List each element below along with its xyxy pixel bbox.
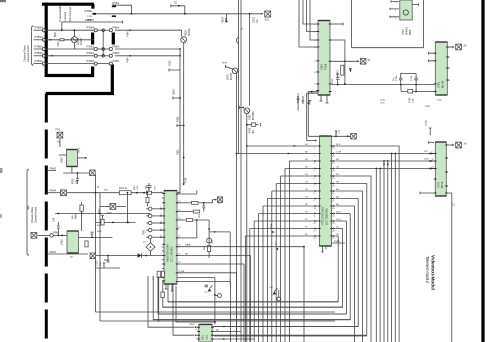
branch drops on pin3 wire xyxy=(387,160,389,162)
svg-text:P08/1: P08/1 xyxy=(113,59,120,63)
wire x158.7 y322 over IC8 xyxy=(158,276,160,322)
wire y84.6 long to IC2 xyxy=(332,84,434,86)
junction dot x180 y55.8 xyxy=(179,55,181,57)
svg-text:6: 6 xyxy=(314,72,315,74)
svg-text:5: 5 xyxy=(396,2,397,4)
arrow into V783 base xyxy=(242,107,244,109)
IC4 right pin arrow 5 xyxy=(333,175,335,177)
bus line y326.5 right part xyxy=(213,326,358,328)
stub resistor on x180 y98 xyxy=(173,97,180,100)
connector pin P786/1 circle xyxy=(42,62,45,65)
IC4 right pin wire 9 corner x354.4 xyxy=(336,206,355,342)
junction dot row1 x61.8 xyxy=(61,29,63,31)
svg-text:7: 7 xyxy=(314,84,315,86)
svg-text:TDA8: TDA8 xyxy=(325,63,328,70)
svg-text:R782: R782 xyxy=(249,127,252,133)
junction dot x180 y49 xyxy=(179,48,181,50)
wire after R313 xyxy=(193,219,209,221)
svg-text:C681: C681 xyxy=(177,149,180,155)
stub down x108 y255 xyxy=(107,256,110,263)
vertical x95.5 corner to bus xyxy=(96,311,336,313)
wire row P786/5 xyxy=(46,29,94,31)
wire between mating circles y49.0 xyxy=(97,48,109,50)
svg-text:9: 9 xyxy=(314,201,315,203)
svg-text:S1: S1 xyxy=(242,27,244,30)
bus left vertical x148 to IC8 xyxy=(148,276,194,327)
bold cap P08/5 stub xyxy=(112,15,116,17)
connector pin P786/1 lead xyxy=(34,63,43,65)
junction x196.8 y220 drop xyxy=(177,220,197,238)
vertical x212.6 up xyxy=(213,200,215,203)
svg-text:1: 1 xyxy=(395,18,396,20)
bus wire pinR12 to left y307.2 xyxy=(163,229,343,308)
mid junction line x103 xyxy=(102,30,104,56)
junction dot main wire x249.5 xyxy=(249,13,251,15)
resistor R402 vertical xyxy=(85,241,88,247)
svg-text:R55: R55 xyxy=(199,213,201,218)
IC4 left pin arrow 5 xyxy=(315,175,317,177)
wire row1 to transistor V626 xyxy=(115,30,182,37)
wire IC3 top pin to AV box xyxy=(446,144,452,146)
resistor R408 xyxy=(80,205,83,211)
wire top feed 4 to IC1 xyxy=(299,0,316,47)
arrow on row1 wire xyxy=(130,29,132,31)
comm data bus wire B xyxy=(307,93,318,140)
svg-text:P94/4: P94/4 xyxy=(50,190,57,193)
connector pin P786/2 circle xyxy=(42,54,45,57)
svg-text:RD: RD xyxy=(185,253,189,255)
arrow into AV3 box xyxy=(452,144,454,146)
junction dots y213.5 xyxy=(57,213,59,215)
IC4 right pin wire 8 corner x358.2 xyxy=(336,198,359,200)
arrow into X311 box xyxy=(215,199,217,201)
comm data bus wire A xyxy=(308,92,318,137)
svg-text:P786/3: P786/3 xyxy=(35,44,44,48)
stub pair on wire D xyxy=(103,263,106,268)
IC4 right pin wire 10 corner x350.2 xyxy=(336,213,351,215)
svg-text:C94: C94 xyxy=(54,217,56,222)
svg-text:V7: V7 xyxy=(204,292,207,294)
svg-text:5V6: 5V6 xyxy=(154,186,156,190)
tiny ticks on IC5 left xyxy=(162,197,164,199)
cap C312 xyxy=(202,203,205,212)
X311 box xyxy=(217,197,222,202)
svg-text:C776: C776 xyxy=(426,120,428,126)
connector body bar col1 xyxy=(91,33,94,45)
IC4 left pin arrow 7 xyxy=(315,190,317,192)
svg-text:3: 3 xyxy=(449,68,450,70)
V783 base stub xyxy=(240,106,245,109)
transistor V625 circle xyxy=(71,37,77,43)
svg-text:P08/5: P08/5 xyxy=(88,19,95,22)
X701 box xyxy=(351,133,357,139)
vertical wire x180 to IC5 xyxy=(177,49,180,193)
svg-text:20: 20 xyxy=(178,262,180,264)
connector pin P786/4 lead xyxy=(34,39,43,41)
junction dot IC1 bottom left xyxy=(311,91,313,93)
corner x236.6 down xyxy=(236,273,238,342)
IC8 right wire y331.5 xyxy=(212,331,241,333)
arrow into row P786/4 xyxy=(50,39,52,41)
bus left vertical x173 to IC8 xyxy=(173,284,194,335)
svg-text:1705: 1705 xyxy=(437,100,442,102)
IC4 bottom right wire TXRB xyxy=(326,243,345,249)
svg-text:X94: X94 xyxy=(57,142,62,144)
AV3 box xyxy=(456,142,462,148)
svg-text:R31: R31 xyxy=(104,190,109,192)
svg-text:10: 10 xyxy=(314,208,316,210)
svg-text:P08/3: P08/3 xyxy=(113,44,120,48)
IC4 right pin wire 1 corner x399.1 xyxy=(336,146,400,342)
IC4 left pin arrow 8 xyxy=(315,198,317,200)
wire row4 to mid column xyxy=(115,55,180,57)
wire row3 to mid column xyxy=(115,48,180,50)
svg-text:C785: C785 xyxy=(411,75,413,81)
svg-text:P786/4: P786/4 xyxy=(35,35,44,39)
resistor R621 box xyxy=(60,39,64,41)
svg-text:22: 22 xyxy=(332,201,334,203)
IC4 right pin wire 7 corner x362.4 xyxy=(336,191,363,342)
svg-text:4: 4 xyxy=(314,163,315,165)
arrow mid wire IC4 pin1 xyxy=(294,145,296,147)
IC5 pin wire y194 right xyxy=(177,191,197,195)
arrow down into IC5 top xyxy=(183,183,185,185)
bus line y336 right part xyxy=(214,335,367,337)
svg-text:4k7: 4k7 xyxy=(70,257,74,259)
svg-text:8: 8 xyxy=(314,193,315,195)
junction dot main wire x184.8 xyxy=(184,13,186,15)
svg-text:3: 3 xyxy=(314,156,315,158)
svg-text:12: 12 xyxy=(314,223,316,225)
row P94/5 wire xyxy=(48,170,56,172)
left bracket P94 xyxy=(27,169,29,256)
svg-text:V2/1: V2/1 xyxy=(203,335,205,340)
green transistor module V787 xyxy=(400,0,412,20)
vertical wire x249.5 from main xyxy=(249,14,251,106)
IC1 bottom stub 1 xyxy=(320,95,323,101)
svg-text:V701 SDA 5231: V701 SDA 5231 xyxy=(322,207,325,225)
thick board link vertical from P08/1 xyxy=(111,65,114,96)
row P94/2 outside box xyxy=(31,232,37,238)
junction dot P18 corner xyxy=(131,13,133,15)
svg-text:R679: R679 xyxy=(173,89,176,95)
IC4 left pin arrow 11 xyxy=(315,220,317,222)
svg-text:4: 4 xyxy=(196,337,197,339)
junction circle mid line bottom xyxy=(102,55,105,58)
wire H D y268 xyxy=(96,267,121,269)
IC4 left pin arrow 6 xyxy=(315,183,317,185)
svg-text:Chassis board: Chassis board xyxy=(35,206,38,223)
arrow into IC8 left y335.2 xyxy=(195,334,197,336)
junction dot DATA x304 xyxy=(303,246,305,248)
IC4 left pin wire 4 nested corner x285.0 xyxy=(285,168,318,170)
diode V303 on wire C xyxy=(138,253,142,257)
IC5 bottom-right wire y281.5 xyxy=(177,282,230,342)
svg-text:5: 5 xyxy=(314,171,315,173)
IC6 right wire xyxy=(78,157,86,159)
svg-text:1705: 1705 xyxy=(424,158,429,160)
resistor R540 vertical xyxy=(341,65,344,75)
connector pin P786/2 lead xyxy=(34,55,43,57)
junction dot x344.9 y61.3 xyxy=(344,60,346,62)
thick board link horizontal xyxy=(46,92,114,95)
thick right edge border line xyxy=(481,0,484,342)
svg-text:3,58: 3,58 xyxy=(413,98,415,103)
row P94/2 wire b xyxy=(53,234,66,236)
cap C785 xyxy=(414,73,417,84)
svg-text:78L05: 78L05 xyxy=(79,147,81,153)
svg-text:13: 13 xyxy=(178,201,180,203)
arrow left row4 xyxy=(50,55,52,57)
vertical wire x238.5 xyxy=(238,0,240,154)
svg-text:23: 23 xyxy=(332,208,334,210)
IC4 left pin wire 11 nested corner x254.2 xyxy=(254,220,317,222)
svg-text:P786/1: P786/1 xyxy=(87,60,95,63)
junction dots crystal xyxy=(400,84,402,86)
resistor R312 xyxy=(193,210,199,213)
arrow into AV2 box xyxy=(452,46,454,48)
vertical x158 upper xyxy=(157,276,159,278)
junction dot row1 x74.4 xyxy=(74,29,76,31)
wire after R311 xyxy=(199,202,213,204)
AV2 box xyxy=(456,44,462,50)
IC4 top cluster wire xyxy=(308,135,350,137)
connector mating circles row y63.6 xyxy=(94,62,97,65)
vertical wire x183.7 from V626 to IC5 xyxy=(183,43,185,184)
svg-text:22p: 22p xyxy=(336,130,338,134)
chassis frame bottom bar xyxy=(46,74,94,77)
IC4 right pin arrow 1 xyxy=(333,145,335,147)
svg-text:X1: X1 xyxy=(368,59,372,62)
svg-text:12: 12 xyxy=(178,192,180,194)
IC7 right wire y237.4 xyxy=(79,236,113,238)
svg-text:MC145: MC145 xyxy=(443,80,445,88)
transistor V678 circle xyxy=(232,68,238,74)
IC4 right pin arrow 11 xyxy=(333,220,335,222)
svg-text:27: 27 xyxy=(332,238,334,240)
svg-text:13: 13 xyxy=(314,231,316,233)
svg-text:V678: V678 xyxy=(227,74,230,80)
bus wire pinR8 to IC8 right xyxy=(213,199,358,327)
svg-text:P786b: P786b xyxy=(85,10,93,13)
IC5 pin wire y272.8 xyxy=(177,272,237,274)
bus line B4 y319.7 xyxy=(153,319,350,321)
svg-text:4: 4 xyxy=(161,221,162,223)
svg-text:5: 5 xyxy=(161,228,162,230)
IC5 DATA wire xyxy=(177,246,304,248)
IC3 bottom-left stub xyxy=(420,192,434,195)
wire top feed 1 to IC1 xyxy=(303,0,316,24)
svg-text:A3: A3 xyxy=(464,143,468,146)
junction dot IC4 top xyxy=(335,135,337,137)
svg-text:P?/1: P?/1 xyxy=(56,130,61,132)
resistor boxes pair x102 xyxy=(101,219,104,225)
arrow into X701 box xyxy=(347,135,349,137)
capacitor C541 xyxy=(336,74,339,85)
wire X302 right xyxy=(116,206,126,208)
wire H y213.5 above IC7 xyxy=(55,213,150,215)
svg-text:V301 SDA 5243: V301 SDA 5243 xyxy=(167,244,170,262)
diamond bridge symbol xyxy=(146,243,155,252)
IC5 pin wire y277.6 to IC8 feed xyxy=(177,277,215,279)
svg-text:C541: C541 xyxy=(380,100,386,102)
wire into X302 xyxy=(100,206,110,208)
IC4 right pin arrow 3 xyxy=(333,160,335,162)
chassis frame top bar xyxy=(42,3,94,6)
wire resistor to transistor xyxy=(64,39,71,41)
svg-text:1705: 1705 xyxy=(380,103,385,105)
vertical x95.5 top join xyxy=(95,192,97,194)
svg-text:10u: 10u xyxy=(256,18,259,23)
svg-text:R4/3: R4/3 xyxy=(97,231,102,233)
resistor R301 on wire A xyxy=(119,191,131,195)
IC4 right pin arrow 12 xyxy=(333,228,335,230)
arrow on IC8 right wire y326.5 xyxy=(222,326,224,328)
svg-text:61223: 61223 xyxy=(80,38,83,45)
wire y61.3 to X540 box xyxy=(332,60,358,62)
resistor R503 hanging xyxy=(226,14,228,22)
svg-text:P94/5: P94/5 xyxy=(50,167,57,170)
jumper stub above main wire xyxy=(171,4,185,14)
svg-text:RD: RD xyxy=(216,330,220,332)
diode D540 xyxy=(349,69,352,72)
connector mating circles row y30.2 xyxy=(94,29,97,32)
wire H C y255.5 xyxy=(96,255,164,257)
wire between mating circles y30.2 xyxy=(97,29,109,31)
wire top feed 2 to IC1 xyxy=(307,0,317,32)
V787 left stub 1 xyxy=(391,0,399,2)
IC V301 videotext decoder xyxy=(162,191,178,284)
IC V785 NVM right xyxy=(434,42,449,95)
vertical x100 corner to bus xyxy=(100,320,335,322)
svg-text:26: 26 xyxy=(332,231,334,233)
svg-text:1705: 1705 xyxy=(87,16,93,18)
svg-text:Chassis board: Chassis board xyxy=(26,45,30,62)
junction dot row P94/2 xyxy=(61,235,63,237)
connector circles column P301 xyxy=(149,207,152,210)
svg-text:1: 1 xyxy=(314,24,315,26)
transistor V625 collector wire xyxy=(73,30,75,36)
bus wire pinR11 to left y314 xyxy=(158,221,346,314)
IC4 top stub cap xyxy=(335,131,338,136)
wire V678 down xyxy=(236,74,238,342)
bus line B3 y314 xyxy=(158,313,346,315)
IC4 right pin arrow 8 xyxy=(333,198,335,200)
wire row P786/1 xyxy=(46,63,94,65)
svg-text:CCT 1705 M12: CCT 1705 M12 xyxy=(172,246,174,262)
cap C301 above wire A xyxy=(147,183,152,191)
IC2 left stub y60.8 xyxy=(429,59,434,62)
X540 crystal box xyxy=(360,59,366,65)
arrow wire y231.9 xyxy=(209,231,230,233)
connector mating circles row y49.0 xyxy=(94,47,97,50)
svg-text:P786/2: P786/2 xyxy=(87,52,95,55)
svg-text:1k8: 1k8 xyxy=(72,215,74,219)
svg-text:R621: R621 xyxy=(55,31,57,37)
wire x249.2 bottom xyxy=(248,254,250,256)
svg-text:17: 17 xyxy=(178,236,180,238)
svg-text:V785: V785 xyxy=(438,82,441,88)
svg-text:1: 1 xyxy=(449,47,450,49)
svg-text:P94/2: P94/2 xyxy=(53,232,60,235)
svg-text:P784: P784 xyxy=(127,57,130,63)
svg-text:P786/2: P786/2 xyxy=(35,51,44,55)
V783 emitter down xyxy=(246,114,248,342)
IC2 left stub y53.2 xyxy=(429,52,434,55)
svg-text:BC848: BC848 xyxy=(188,28,191,36)
svg-text:C1: C1 xyxy=(453,202,456,206)
svg-text:16: 16 xyxy=(178,227,180,229)
vertical drop x127.5 wire A to wire B xyxy=(127,193,129,223)
svg-text:TXRD: TXRD xyxy=(334,241,340,243)
wire x176 y322 to x214 xyxy=(176,286,215,322)
wire H A y192.7 xyxy=(67,192,163,194)
svg-text:P18/1: P18/1 xyxy=(113,1,120,5)
bold cap P18/1 stub xyxy=(112,5,116,7)
signal box outline top-right xyxy=(352,0,424,48)
plus5V cluster x214 xyxy=(214,278,216,325)
svg-text:25: 25 xyxy=(332,223,334,225)
wire X350 down xyxy=(59,138,61,147)
IC5 pin wire y264 xyxy=(177,263,244,265)
main top wire y13.8 xyxy=(93,13,262,15)
wire between mating circles y63.6 xyxy=(97,63,109,65)
corner x250.5 down xyxy=(250,255,252,342)
branch drops on pin2 wire xyxy=(394,153,396,155)
IC1 bottom caps cluster xyxy=(297,96,305,104)
svg-text:V776: V776 xyxy=(438,182,441,188)
AV connector box top xyxy=(265,11,271,17)
svg-text:V3: V3 xyxy=(143,242,146,244)
IC4 left pin wire 8 nested corner x267.4 xyxy=(267,198,317,200)
svg-text:3: 3 xyxy=(314,40,315,42)
svg-text:12: 12 xyxy=(432,167,434,169)
svg-text:19: 19 xyxy=(178,253,180,255)
svg-text:5: 5 xyxy=(314,61,315,63)
svg-text:P58/4: P58/4 xyxy=(113,26,120,30)
bus wire pinR13 to left y301.8 xyxy=(168,236,338,302)
svg-text:R408: R408 xyxy=(76,213,78,219)
svg-text:21: 21 xyxy=(332,193,334,195)
V787 left stub 3 xyxy=(390,16,399,18)
chassis frame left bar xyxy=(45,3,48,78)
IC4 right pin wire 6 corner x366.8 xyxy=(336,183,367,185)
IC V402 audio xyxy=(67,231,79,253)
junction dot x183.7 y157.5 xyxy=(183,157,185,159)
wire R314 down xyxy=(208,252,210,259)
svg-text:BC858: BC858 xyxy=(231,72,233,80)
svg-text:18: 18 xyxy=(178,245,180,247)
IC5 RD wire xyxy=(177,254,251,256)
IC4 pin4 wire to IC3 xyxy=(336,168,435,170)
wire V678 to IC4 pin2 xyxy=(237,153,318,155)
svg-text:P786/4: P786/4 xyxy=(87,27,95,30)
svg-text:14: 14 xyxy=(314,238,316,240)
left bracket for connector P786 xyxy=(32,26,34,66)
svg-text:Chassisplatte: Chassisplatte xyxy=(58,5,62,22)
V787 right pin wire xyxy=(412,3,418,5)
stub ticks left of P301 circles xyxy=(146,208,148,210)
svg-text:C310: C310 xyxy=(97,260,99,266)
svg-text:C71: C71 xyxy=(339,129,341,134)
wire diamond down xyxy=(150,251,152,255)
junction dot wire C xyxy=(145,255,147,257)
IC1 bottom stub 2 xyxy=(326,95,329,103)
resistor R314 vertical xyxy=(208,246,211,252)
IC4 left pin wire 3 nested corner x289.4 xyxy=(289,160,317,162)
arrow into IC8 left y327.2 xyxy=(195,326,197,328)
vertical wire x95.5 cluster xyxy=(95,175,97,312)
